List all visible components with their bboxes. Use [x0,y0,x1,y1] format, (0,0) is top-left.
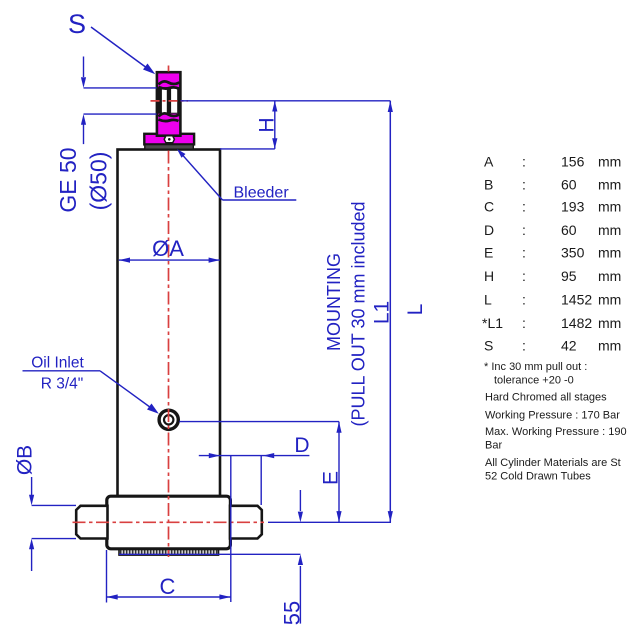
left trunnion pin [76,506,107,539]
oil inlet leader [100,371,156,412]
bearing window block [157,87,181,113]
svg-text:55: 55 [280,601,305,625]
svg-text:mm: mm [598,245,621,261]
svg-text:R 3/4": R 3/4" [41,376,84,393]
data table [482,154,621,354]
svg-text:L: L [484,291,492,307]
centerline pin axis [73,521,265,523]
thread squiggle top [159,81,180,88]
svg-text:B: B [484,176,493,192]
oil inlet port [159,410,178,429]
svg-text::: : [522,268,526,284]
centerline vertical top tick [168,66,170,72]
svg-text::: : [522,222,526,238]
svg-text:52 Cold Drawn Tubes: 52 Cold Drawn Tubes [485,471,591,483]
svg-text:* Inc 30 mm pull out :: * Inc 30 mm pull out : [484,361,587,373]
svg-text:E: E [484,245,493,261]
svg-text:(PULL OUT 30 mm included: (PULL OUT 30 mm included [349,201,369,426]
svg-text:ØB: ØB [14,445,37,475]
svg-text:tolerance +20 -0: tolerance +20 -0 [494,375,574,387]
svg-text:Max. Working Pressure : 190: Max. Working Pressure : 190 [485,426,627,438]
svg-text:mm: mm [598,222,621,238]
svg-text::: : [522,315,526,331]
svg-text:mm: mm [598,199,621,215]
Bleeder leader [179,151,223,201]
H dimension line [274,101,276,149]
svg-text:All Cylinder Materials are St: All Cylinder Materials are St [485,457,621,469]
H bottom extension line [220,148,275,150]
svg-text:Bar: Bar [485,440,502,452]
gland strip under T-base [145,145,194,150]
D-C shared extension line [230,456,232,602]
svg-text:mm: mm [598,338,621,354]
svg-text:L: L [404,304,427,316]
E dimension line [338,422,340,523]
svg-text:Oil Inlet: Oil Inlet [31,355,84,372]
oil inlet extension line [179,421,339,423]
svg-text:E: E [320,471,343,485]
svg-text:60: 60 [561,176,577,192]
cylinder body [118,150,221,497]
55 dimension [119,490,300,624]
svg-text:156: 156 [561,154,585,170]
svg-text:GE 50: GE 50 [55,147,81,212]
svg-text:1482: 1482 [561,315,592,331]
centerline vertical main [168,151,170,558]
svg-text:mm: mm [598,154,621,170]
rod end T-base [144,134,194,145]
svg-text:S: S [484,338,493,354]
svg-text:mm: mm [598,268,621,284]
S leader [91,27,151,71]
right trunnion pin [230,506,262,539]
svg-text:H: H [256,117,279,132]
bleeder hex screw [164,136,174,143]
svg-text:Hard Chromed all stages: Hard Chromed all stages [485,392,607,404]
svg-text::: : [522,176,526,192]
svg-text::: : [522,245,526,261]
diameter B dimension [32,477,76,571]
pin axis extension line [268,521,391,523]
svg-text::: : [522,154,526,170]
svg-text::: : [522,291,526,307]
svg-text:mm: mm [598,291,621,307]
svg-text:*L1: *L1 [482,315,503,331]
C dimension line [107,596,231,598]
svg-text:42: 42 [561,338,577,354]
centerline bearing axis [151,100,189,102]
svg-text:(Ø50): (Ø50) [86,152,112,211]
D right extension line [260,456,262,505]
svg-text:L1: L1 [371,301,394,324]
svg-text::: : [522,199,526,215]
svg-text:mm: mm [598,315,621,331]
bearing window right slot [171,88,177,112]
svg-text:1452: 1452 [561,291,592,307]
svg-text:C: C [160,574,176,599]
svg-text:A: A [484,154,494,170]
H top extension line [181,100,391,102]
svg-text:MOUNTING: MOUNTING [324,253,344,351]
svg-text:D: D [294,434,309,457]
svg-text:95: 95 [561,268,577,284]
svg-text:ØA: ØA [152,236,184,261]
S dimension lines [84,57,157,145]
svg-text:60: 60 [561,222,577,238]
thread squiggle bottom [159,113,180,121]
svg-text:350: 350 [561,245,585,261]
D dimension line [199,455,310,457]
svg-text:H: H [484,268,494,284]
base weld strip [119,550,219,556]
diameter A dimension [119,259,220,261]
svg-text:S: S [68,9,86,39]
L1 dimension line [389,101,391,523]
svg-text:193: 193 [561,199,585,215]
base block [107,496,231,549]
rod end housing GE50 column [157,72,181,136]
svg-text:mm: mm [598,176,621,192]
svg-text:D: D [484,222,494,238]
svg-text:Bleeder: Bleeder [234,185,290,202]
svg-text:Working Pressure : 170 Bar: Working Pressure : 170 Bar [485,410,620,422]
svg-text:C: C [484,199,494,215]
bearing window left slot [162,88,167,112]
notes [484,361,627,483]
C left extension line [106,550,108,603]
svg-text::: : [522,338,526,354]
